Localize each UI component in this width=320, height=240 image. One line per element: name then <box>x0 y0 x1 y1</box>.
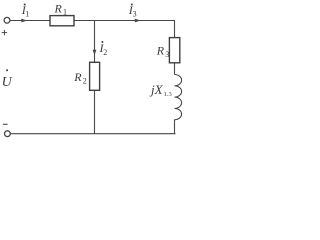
wire middle branch lower <box>94 90 96 134</box>
minus sign <box>3 123 8 125</box>
svg-text:3: 3 <box>133 10 137 19</box>
current arrow I1 <box>21 19 27 23</box>
svg-text:U: U <box>2 75 13 90</box>
label R2 <box>73 70 87 85</box>
label I2 <box>99 41 108 57</box>
svg-text:2: 2 <box>83 77 87 86</box>
wire top (from + terminal to top-right corner) <box>10 20 175 22</box>
current arrow I3 <box>135 19 141 23</box>
svg-text:R: R <box>73 70 82 84</box>
label I1 <box>21 3 29 19</box>
label jX13 <box>149 82 172 98</box>
svg-text:1: 1 <box>63 8 67 17</box>
wire right branch upper <box>174 20 176 38</box>
resistor R1 <box>50 16 74 26</box>
svg-text:jX: jX <box>149 82 164 97</box>
label R1 <box>54 1 68 16</box>
svg-text:3: 3 <box>165 50 169 59</box>
current arrow I2 <box>93 50 97 55</box>
svg-text:1.3: 1.3 <box>164 91 172 98</box>
terminal top-left (+) <box>4 17 10 23</box>
resistor R3 <box>169 38 179 63</box>
inductor jX13 (coil) <box>175 75 182 120</box>
wire R3 to inductor <box>174 63 176 75</box>
svg-text:2: 2 <box>103 48 107 57</box>
label I3 <box>128 3 137 19</box>
resistor R2 <box>90 62 100 90</box>
label U (source voltage phasor) <box>2 69 13 90</box>
svg-text:R: R <box>156 44 165 58</box>
wire middle branch upper <box>94 21 96 63</box>
wire bottom (from - terminal to bottom-right corner) <box>10 133 175 135</box>
terminal bottom-left (-) <box>5 131 11 137</box>
plus sign <box>2 30 7 35</box>
label R3 <box>156 44 169 59</box>
wire right branch lower <box>174 120 176 135</box>
svg-text:1: 1 <box>25 10 29 19</box>
svg-text:R: R <box>54 1 63 15</box>
